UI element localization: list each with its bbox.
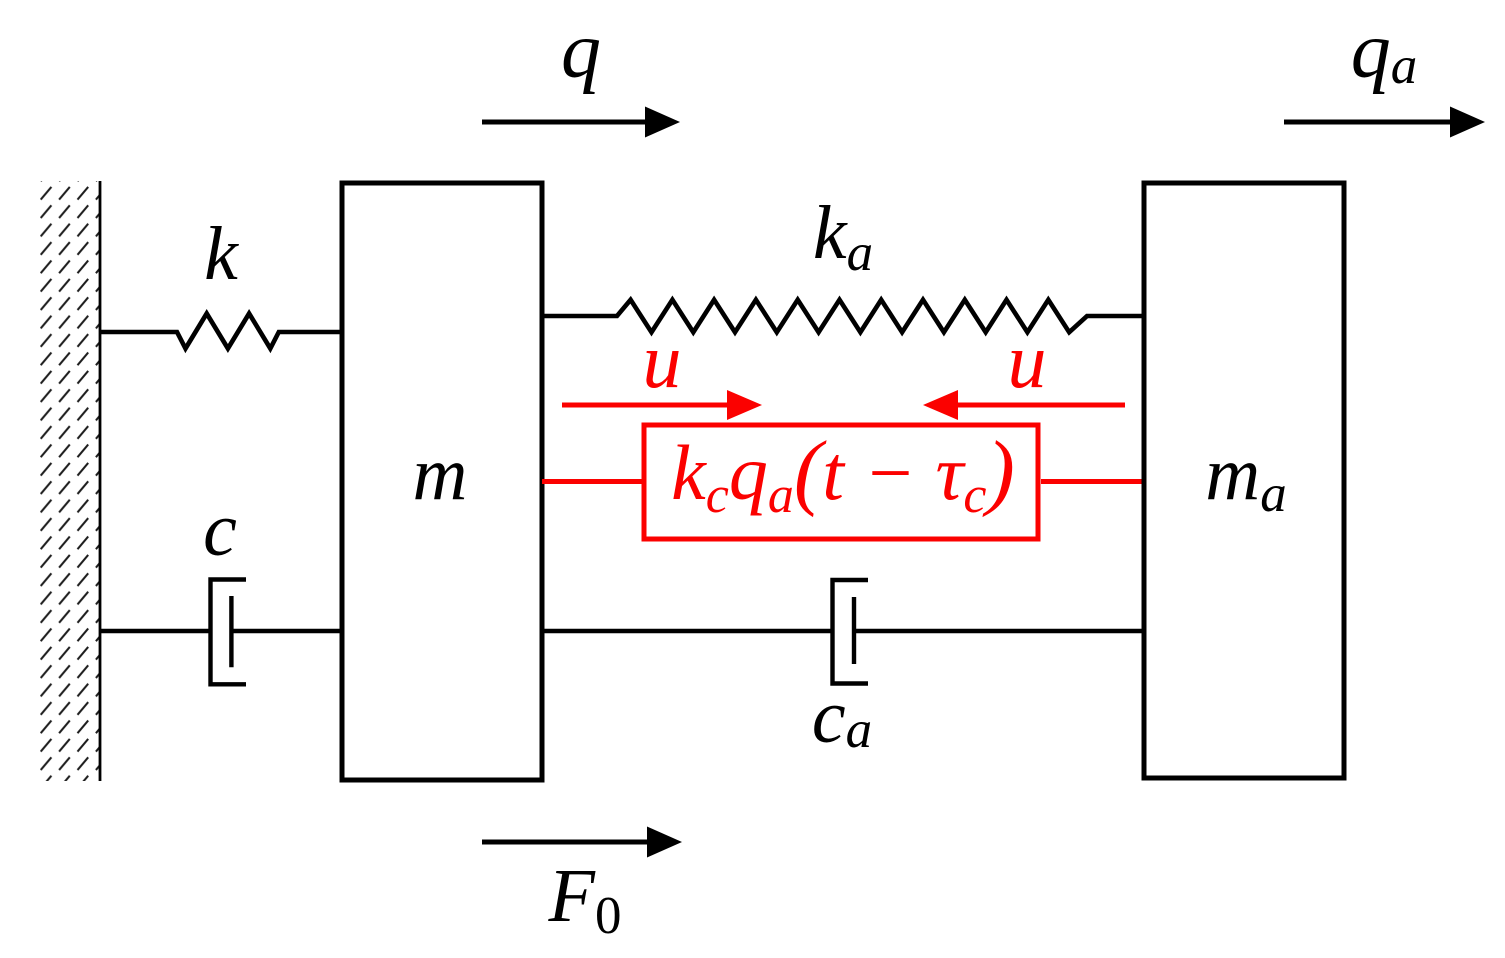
- damper c: [211, 580, 247, 685]
- damper c wire right: [231, 629, 342, 634]
- svg-text:u: u: [643, 317, 682, 404]
- svg-text:u: u: [1008, 317, 1047, 404]
- damper c wire left: [100, 629, 212, 634]
- svg-text:m: m: [413, 432, 468, 516]
- wall (hatched ground): [40, 181, 100, 781]
- red wire right (actuator box to m_a): [1041, 479, 1144, 484]
- damper c_a wire left: [542, 629, 834, 634]
- damper c_a: [833, 580, 869, 684]
- svg-text:c: c: [203, 488, 237, 572]
- red arrow u left: [562, 390, 762, 420]
- mass m: [342, 183, 542, 780]
- red arrow u right: [923, 390, 1125, 420]
- arrow q: [482, 107, 680, 138]
- actuator box (red): [644, 425, 1038, 539]
- svg-text:k: k: [204, 212, 239, 296]
- mass m_a: [1144, 183, 1344, 778]
- damper c_a wire right: [854, 629, 1144, 634]
- arrow F0: [482, 827, 682, 858]
- spring k_a: [542, 300, 1144, 332]
- spring k: [100, 314, 342, 349]
- red wire left (m to actuator box): [542, 479, 644, 484]
- arrow q_a: [1284, 107, 1485, 138]
- svg-text:q: q: [561, 7, 601, 95]
